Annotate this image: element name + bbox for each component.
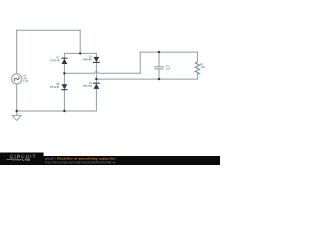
label D1 name: [57, 57, 60, 59]
wire: left column top segment: [63, 53, 65, 58]
watermark logo box: [0, 153, 44, 166]
logo text LAB: [22, 158, 29, 160]
diode D4 triangle: [94, 84, 100, 89]
label D3 value 1N4148: [50, 86, 59, 88]
watermark url text: [45, 161, 115, 164]
capacitor C1 bottom plate: [154, 68, 164, 70]
diode D2 cathode bar: [93, 61, 100, 63]
junction node at source bottom corner: [16, 110, 18, 112]
voltage source V2 sine glyph: [13, 76, 20, 81]
label C1 value 1 uF: [166, 68, 170, 70]
wire: top horizontal from source to bridge feed: [17, 29, 80, 31]
label C1 name: [166, 65, 169, 67]
diode D3 triangle: [62, 84, 68, 89]
junction node R (right mid): [95, 78, 97, 80]
wire: bottom rail: [17, 110, 97, 112]
wire: bridge top rail: [64, 52, 96, 54]
label V2 type sine: [23, 77, 27, 79]
label R1 value 1 kOhm: [201, 66, 205, 68]
wire: right column D4-to-bottom segment: [95, 89, 97, 111]
diode D1 cathode bar: [61, 57, 67, 59]
junction node L (left mid): [63, 72, 65, 74]
wire: resistor top stub: [196, 52, 198, 62]
label V2 name: [23, 75, 26, 77]
wire: resistor bottom stub: [196, 74, 198, 79]
label D3 name: [56, 83, 59, 85]
junction node at capacitor top: [158, 51, 160, 53]
label V2 value 1 kHz: [23, 80, 28, 82]
junction node at bridge top feed: [79, 52, 81, 54]
junction node at capacitor bottom: [158, 78, 160, 80]
wire: R node to RC bottom rail: [96, 78, 197, 80]
wire: left column D1-to-L segment: [63, 64, 65, 84]
wire: L node output with hop over right column: [64, 72, 140, 74]
wire: source bottom stub down: [16, 84, 18, 111]
label D2 value 1N4148: [82, 59, 91, 61]
wire: source top stub up: [16, 30, 18, 74]
wire: feed down to bridge top rail: [79, 30, 81, 53]
logo resistor zigzag: [7, 159, 22, 161]
label D4 value 1N4148: [83, 85, 92, 87]
capacitor C1 top plate: [154, 66, 164, 68]
logo text CIRCUIT: [10, 155, 35, 158]
wire: capacitor top stub: [158, 52, 160, 66]
diode D2 triangle: [94, 57, 100, 62]
voltage source V2 circle: [12, 74, 22, 84]
label D1 value 1N4148: [50, 59, 59, 61]
label D2 name: [89, 56, 92, 58]
wire: capacitor bottom stub: [158, 69, 160, 79]
junction node at left column bottom: [63, 110, 65, 112]
diode D4 cathode bar: [93, 82, 100, 84]
label R1 name: [201, 64, 204, 66]
wire: ground stub: [16, 111, 18, 115]
watermark bar: [0, 156, 220, 165]
watermark title text: [58, 157, 116, 160]
ground symbol: [12, 115, 21, 120]
wire: RC top rail: [140, 51, 197, 53]
wire: right column top segment: [95, 53, 97, 57]
watermark author text: [45, 157, 56, 160]
wire: right column D2-to-D4 segment: [95, 63, 97, 84]
resistor R1 zigzag: [195, 62, 199, 75]
wire: riser up to RC top rail: [139, 52, 141, 73]
diode D1 triangle: [62, 59, 68, 64]
wire: left column D3-to-bottom segment: [63, 90, 65, 111]
label D4 name: [89, 82, 92, 84]
diode D3 cathode bar: [61, 89, 67, 91]
